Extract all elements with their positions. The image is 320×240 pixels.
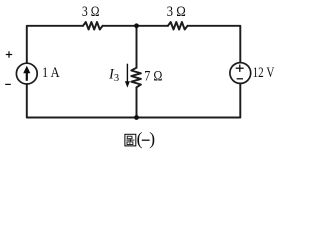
svg-text:(: ( [137,129,143,149]
voltage source V1 circle [230,63,251,84]
voltage source V1 plus sign [236,65,244,72]
wire middle branch lower [136,87,138,117]
svg-text:): ) [149,129,155,149]
resistor R1 zigzag [83,22,103,30]
polarity plus sign left [6,51,12,57]
polarity minus sign left [5,83,11,85]
svg-text:3 Ω: 3 Ω [167,4,186,20]
node dot bottom [134,115,139,120]
resistor R2 zigzag [168,22,188,30]
wire bottom segment [27,83,241,117]
svg-text:7 Ω: 7 Ω [144,68,162,84]
svg-text:3 Ω: 3 Ω [82,4,100,20]
voltage source V1 minus sign [237,78,243,80]
wire top-right segment [188,26,241,63]
svg-text:12 V: 12 V [253,65,275,81]
current I3 arrow [125,64,130,88]
current source I1 circle [16,63,37,84]
resistor R3 zigzag [131,68,141,88]
node dot top [134,23,139,28]
wire top-middle segment [103,25,168,27]
current source I1 arrow [23,66,30,81]
wire middle branch upper [136,26,138,68]
caption character tu (figure) [125,134,136,146]
svg-text:1 A: 1 A [42,65,60,81]
wire top-left segment [27,26,83,63]
